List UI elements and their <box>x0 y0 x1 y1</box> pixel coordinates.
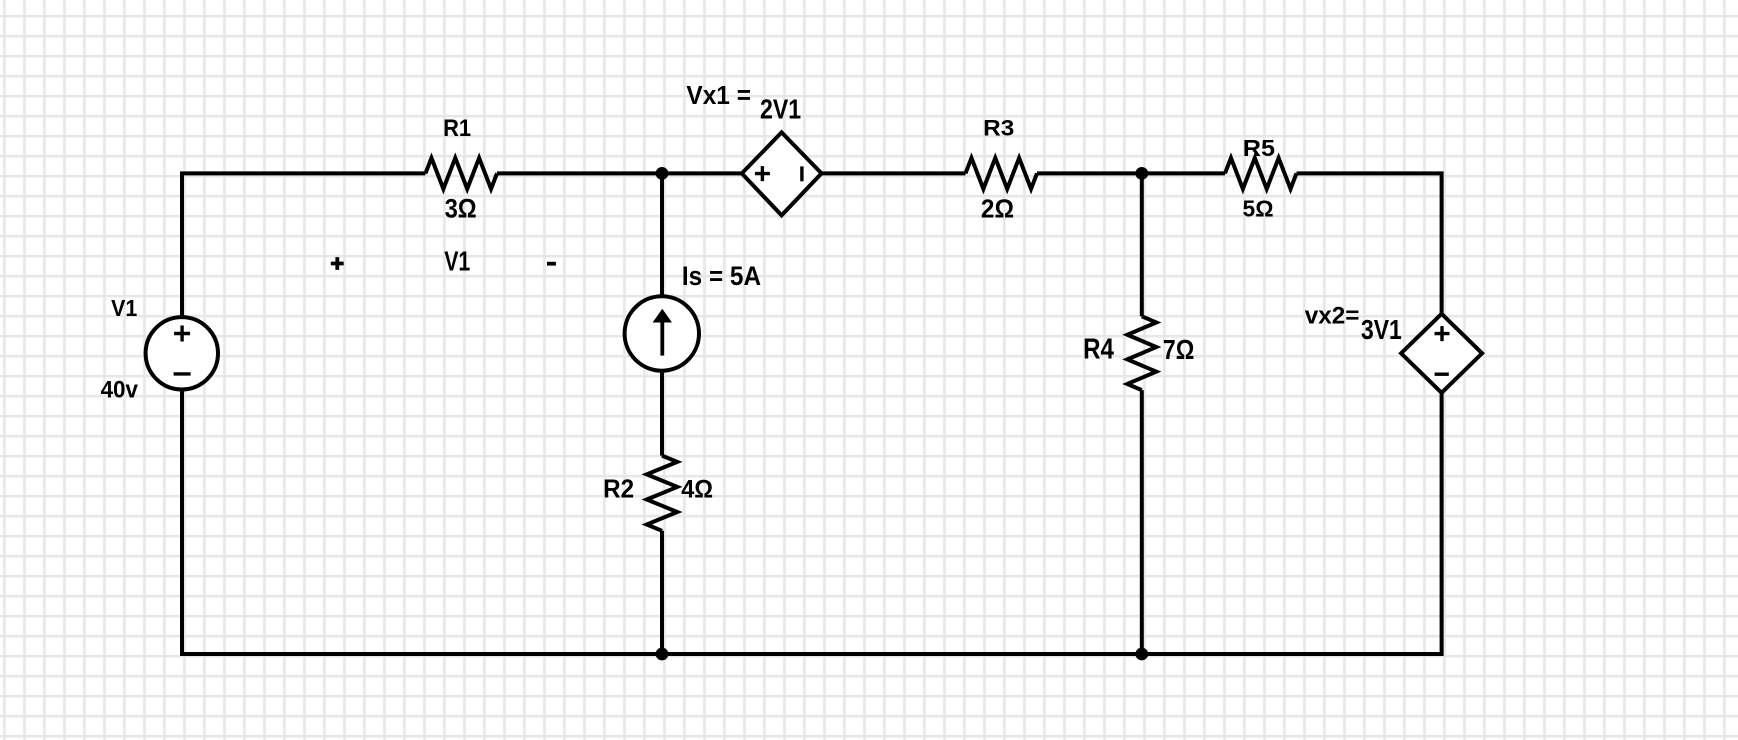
svg-text:3Ω: 3Ω <box>445 193 477 224</box>
svg-text:2V1: 2V1 <box>760 94 801 125</box>
node junction dot: bottom rail / R4 branch <box>1135 648 1148 661</box>
wire: vx2 down, bottom wire, left vertical lower <box>182 391 1442 655</box>
wire: R4 to bottom <box>1140 390 1144 654</box>
wire: mid vertical upper (node to Is source) <box>660 173 664 296</box>
polarity plus sign for V1 across R1 <box>331 257 556 270</box>
wire: R2 to bottom node <box>660 531 664 654</box>
resistor R4 <box>1127 316 1156 390</box>
voltage source V1 (circle) <box>146 317 218 389</box>
V1 source minus sign <box>174 372 191 375</box>
svg-text:vx2=: vx2= <box>1305 303 1360 330</box>
wire: R1 to Vx1 diamond <box>497 171 742 175</box>
node junction dot: bottom rail / R2 branch <box>656 648 669 661</box>
wire: R5 to top-right corner, down to vx2 diamond <box>1297 173 1442 314</box>
resistor R5 <box>1225 158 1297 189</box>
resistor R3 <box>966 158 1038 189</box>
svg-text:R1: R1 <box>443 115 471 142</box>
svg-text:V1: V1 <box>444 245 470 276</box>
svg-text:5Ω: 5Ω <box>1243 196 1274 222</box>
resistor R2 <box>647 456 678 531</box>
wire: left vertical upper segment and top rail to R1 (node A top-left corner) <box>182 173 426 316</box>
svg-text:R3: R3 <box>983 116 1014 141</box>
current source Is (circle) <box>625 296 699 370</box>
wire: R3 to R5 <box>1037 171 1225 175</box>
dependent voltage source vx2 (diamond) <box>1401 314 1482 393</box>
svg-text:Is = 5A: Is = 5A <box>682 261 761 291</box>
Vx1 right polarity bar <box>800 166 803 181</box>
Vx1 plus sign <box>755 166 770 181</box>
V1 source plus sign <box>174 326 190 342</box>
svg-text:R4: R4 <box>1083 333 1114 365</box>
wire: right-mid vertical upper (node to R4) <box>1140 173 1144 316</box>
svg-text:Vx1 =: Vx1 = <box>686 82 751 110</box>
svg-text:R2: R2 <box>603 473 634 503</box>
svg-text:7Ω: 7Ω <box>1163 334 1195 365</box>
node junction dot: top rail / Is branch <box>656 167 669 180</box>
svg-text:4Ω: 4Ω <box>681 476 713 504</box>
svg-text:40v: 40v <box>101 377 139 403</box>
dependent voltage source Vx1 (diamond) <box>742 132 822 215</box>
current source Is arrow <box>653 309 672 356</box>
wire: Vx1 to R3 <box>822 171 966 175</box>
polarity minus sign for V1 across R1 <box>547 262 556 266</box>
vx2 plus sign <box>1435 326 1450 341</box>
vx2 minus sign <box>1435 373 1449 376</box>
svg-text:3V1: 3V1 <box>1361 314 1402 345</box>
resistor R1 <box>426 158 498 189</box>
svg-text:V1: V1 <box>111 295 137 321</box>
svg-text:2Ω: 2Ω <box>981 195 1014 223</box>
node junction dot: top rail / R4 branch <box>1135 167 1148 180</box>
svg-text:R5: R5 <box>1243 135 1275 161</box>
wire: Is to R2 <box>660 373 664 456</box>
